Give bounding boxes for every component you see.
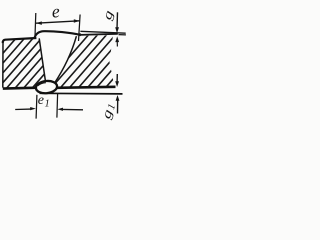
hatching right plate <box>41 34 162 90</box>
right plate bottom edge <box>57 87 116 88</box>
dimension g: lower arrowhead (up) <box>115 36 119 42</box>
dimension e1: right arrowhead (left) <box>57 108 63 111</box>
dimension g1: root level extension line <box>40 92 123 95</box>
weld bead top outline <box>34 31 80 38</box>
right plate top surface (extends as g lower extension stub) <box>80 34 118 35</box>
left plate left edge <box>2 42 4 88</box>
dimension g: crown level extension line <box>80 31 125 33</box>
left bevel edge <box>39 38 46 87</box>
junction blob at bead right toe <box>79 33 82 36</box>
dimension e1: left tail <box>15 108 31 110</box>
dimension g1: upper arrowhead (down) <box>115 81 119 87</box>
svg-text:e: e <box>38 93 44 108</box>
right bevel edge <box>54 36 76 83</box>
root bead inner arc <box>38 83 46 86</box>
dimension e: right extension line <box>79 15 81 42</box>
dimension g: upper arrowhead (down) <box>115 27 119 33</box>
dimension g1: lower arrowhead (up) <box>116 95 120 101</box>
g lower extension stub past arrow <box>119 34 126 36</box>
dimension e1: right tail <box>62 108 83 110</box>
dimension g1: upper arrow shaft <box>116 74 118 82</box>
dimension e1: left arrowhead (right) <box>30 107 36 110</box>
dimension e: right arrowhead <box>74 19 80 23</box>
dimension e: left extension line <box>34 13 37 37</box>
dimension g: lower arrow shaft <box>116 41 118 47</box>
left plate bottom edge <box>3 86 38 90</box>
dimension e1: right extension line <box>56 94 59 118</box>
dimension g1: lower arrow shaft <box>117 100 119 114</box>
weld joint cross-section diagram <box>0 0 130 122</box>
dimension e: line <box>36 21 80 23</box>
dimension e: left arrowhead <box>36 21 42 25</box>
left plate top surface <box>3 38 37 43</box>
dimension e1: left extension line <box>35 95 38 119</box>
svg-text:1: 1 <box>45 99 50 110</box>
dimension g: upper arrow shaft <box>116 12 119 29</box>
hatching left plate <box>0 34 96 90</box>
root bead outline (penetration bead ellipse) <box>35 80 57 94</box>
